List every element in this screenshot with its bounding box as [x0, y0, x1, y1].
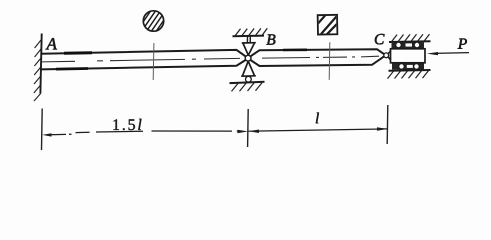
support B: upper ground line: [233, 35, 265, 38]
bar segment B-C top edge: [251, 49, 385, 56]
dimension arrowhead right (at B tick, left span): [238, 130, 248, 134]
bar top edge bold patch 2: [283, 48, 307, 51]
label B: [266, 34, 275, 44]
section marker line (at hatched circle): [152, 43, 155, 80]
wall hatching (fixed support at A): [34, 40, 41, 101]
dimension extension tick at B: [247, 109, 250, 147]
label 1.5l: [113, 119, 141, 130]
sliding support C: lower roller band: [392, 63, 424, 69]
cross-section symbol: hatched square: [312, 8, 344, 37]
bar bottom edge bold patch: [56, 67, 88, 70]
bar centerline B-C (dash-dot): [262, 56, 379, 58]
dimension arrowhead left (at A tick): [42, 133, 51, 136]
force P shaft: [434, 52, 469, 55]
sliding support C: lower ground hatching: [388, 71, 429, 79]
support B: upper ground hatching: [235, 28, 267, 36]
label A: [46, 38, 57, 49]
bar segment A-B top edge (with taper into hinge B): [41, 50, 246, 57]
sliding support C: lower ground line: [389, 69, 431, 72]
bar segment A-B bottom edge: [41, 60, 246, 70]
cross-section symbol: hatched circle: [140, 7, 167, 36]
dimension line 1.5l (dash-dot): [50, 131, 239, 135]
dimension extension tick at C: [386, 105, 389, 144]
support B: upper triangle (apex down on pin): [242, 43, 256, 56]
sliding support C: upper rollers: [396, 42, 401, 47]
support B: lower triangle (apex up on pin): [241, 61, 256, 76]
sliding support C: upper roller band: [392, 42, 425, 48]
bar segment B-C bottom edge: [251, 57, 384, 66]
dimension extension tick at A: [41, 109, 44, 151]
label l: [316, 113, 319, 124]
dimension line l (solid): [249, 129, 388, 131]
support B: upper stem: [246, 36, 248, 43]
connector pin C to sliding block: [388, 51, 391, 61]
support B: roller circle below lower triangle: [246, 76, 252, 82]
pin at C: [384, 53, 389, 58]
label P: [458, 39, 467, 49]
dimension arrowhead left (at B tick, right span): [249, 130, 259, 134]
bar centerline A-C (dash-dot): [42, 58, 241, 62]
sliding support C: lower rollers: [399, 64, 404, 69]
sliding support C: upper ground hatching: [392, 34, 430, 42]
section marker line (at hatched square): [328, 42, 331, 80]
force P arrowhead (pointing left): [427, 52, 438, 55]
sliding support C: block: [391, 49, 426, 63]
bar top edge bold patch: [64, 51, 92, 55]
dimension arrowhead right (at C tick): [377, 127, 387, 131]
label C: [375, 34, 385, 44]
pin (hinge) at B: [245, 55, 251, 61]
support B: lower ground hatching: [232, 83, 263, 92]
support B: lower ground line: [230, 82, 265, 83]
sliding support C: upper ground line: [389, 40, 431, 43]
wall line: [40, 34, 41, 94]
